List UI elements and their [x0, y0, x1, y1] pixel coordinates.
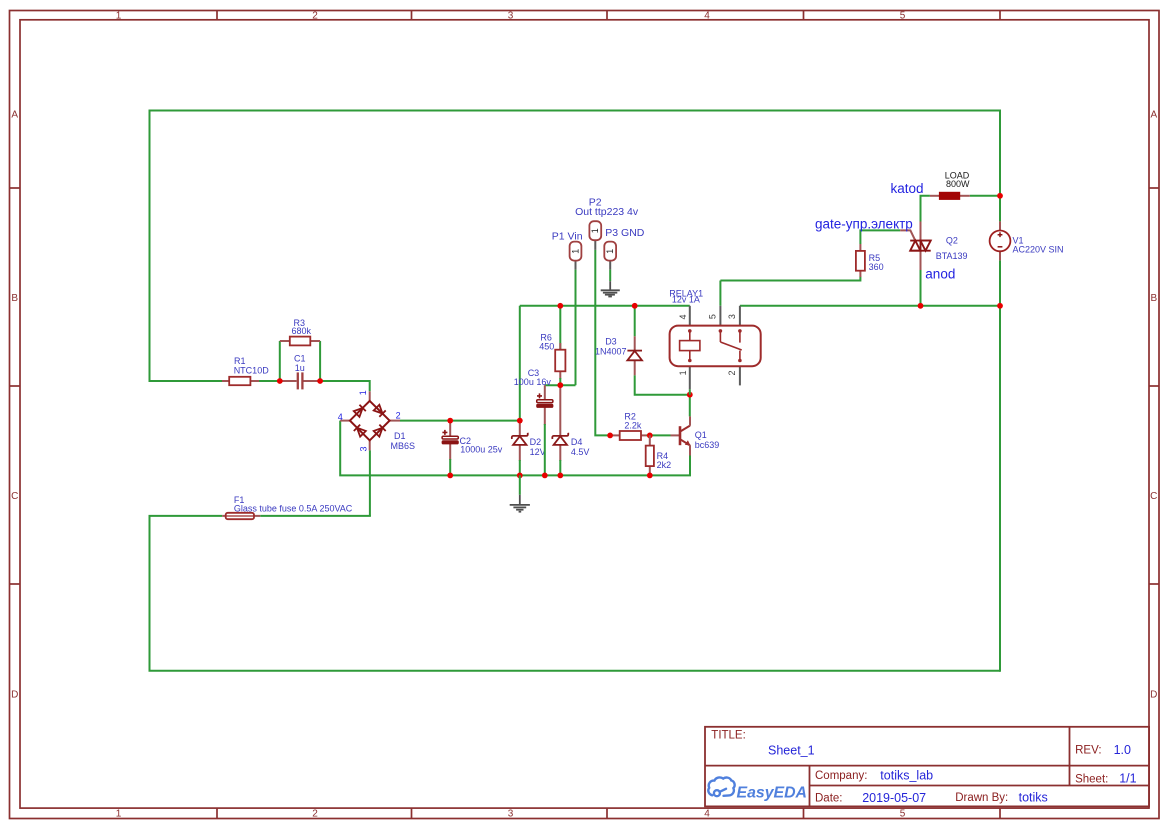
- wire main ground stem: [519, 475, 521, 494]
- relay RELAY1: [669, 288, 760, 394]
- svg-text:1: 1: [678, 370, 688, 375]
- wire Q1 collector: [689, 395, 691, 417]
- svg-text:AC220V SIN: AC220V SIN: [1013, 245, 1064, 255]
- wire anod: [920, 270, 922, 306]
- svg-text:Out ttp223 4v: Out ttp223 4v: [575, 206, 639, 218]
- wire right vertical bottom: [999, 306, 1001, 672]
- svg-text:3: 3: [359, 446, 369, 451]
- wire right vertical top: [999, 110, 1001, 196]
- source V1: [990, 221, 1064, 260]
- node D2 top: [517, 418, 523, 424]
- wire P2 drop to R2: [595, 250, 613, 436]
- svg-text:1: 1: [570, 249, 580, 254]
- wire C3 P1 node row: [545, 384, 576, 386]
- connector P2: [575, 197, 639, 250]
- svg-text:3: 3: [508, 808, 514, 819]
- svg-text:100u 16v: 100u 16v: [514, 377, 552, 387]
- wire bridge pin4 to DC minus rail: [340, 421, 450, 476]
- resistor LOAD: [930, 171, 970, 200]
- node relay pin1 D3 Q1: [687, 392, 693, 398]
- svg-text:4: 4: [704, 808, 710, 819]
- svg-text:3: 3: [508, 10, 514, 21]
- svg-text:bc639: bc639: [695, 440, 720, 450]
- wire LOAD right: [970, 195, 1000, 197]
- wire R2 to Q1 base node: [647, 434, 671, 436]
- wire fuse row left: [149, 515, 223, 517]
- wire left upper vertical: [149, 110, 151, 382]
- svg-text:TITLE:: TITLE:: [711, 730, 746, 742]
- resistor R5: [856, 244, 884, 277]
- svg-text:Drawn By:: Drawn By:: [955, 792, 1008, 804]
- node R6 top: [557, 303, 563, 309]
- node C3 bottom: [542, 473, 548, 479]
- svg-text:Q2: Q2: [946, 235, 958, 245]
- svg-text:2: 2: [312, 10, 318, 21]
- svg-text:REV:: REV:: [1075, 744, 1101, 756]
- svg-text:totiks: totiks: [1019, 791, 1048, 805]
- connector P1: [552, 231, 583, 270]
- wire R3 branch left: [279, 341, 281, 381]
- wire V1 upper: [999, 196, 1001, 222]
- svg-text:800W: 800W: [946, 179, 970, 189]
- zener D2: [512, 421, 546, 476]
- svg-text:2019-05-07: 2019-05-07: [862, 791, 926, 805]
- svg-text:4: 4: [678, 314, 688, 319]
- capacitor C1: [280, 353, 320, 389]
- svg-text:680k: 680k: [292, 326, 312, 336]
- svg-text:D: D: [11, 690, 18, 701]
- svg-text:MB6S: MB6S: [391, 441, 416, 451]
- svg-text:1/1: 1/1: [1119, 771, 1136, 785]
- resistor R3: [280, 318, 320, 345]
- svg-text:Glass tube fuse 0.5A 250VAC: Glass tube fuse 0.5A 250VAC: [234, 503, 353, 513]
- svg-text:D: D: [1150, 690, 1157, 701]
- svg-text:P1 Vin: P1 Vin: [552, 231, 583, 243]
- wire R1 to C1 node: [259, 380, 280, 382]
- wire bridge pin3 to fuse row: [369, 450, 371, 516]
- wire D3 top: [634, 306, 636, 337]
- transistor Q1: [671, 416, 720, 455]
- svg-text:1000u 25v: 1000u 25v: [460, 445, 503, 455]
- svg-text:4: 4: [338, 412, 343, 422]
- wire V1 lower: [999, 260, 1001, 305]
- svg-text:totiks_lab: totiks_lab: [880, 769, 933, 783]
- node LOAD right: [997, 193, 1003, 199]
- svg-text:D4: D4: [571, 437, 583, 447]
- node V1 bottom rail: [997, 303, 1003, 309]
- svg-text:2: 2: [727, 370, 737, 375]
- wire P1 drop: [575, 270, 577, 386]
- svg-text:450: 450: [539, 341, 554, 351]
- svg-text:1: 1: [590, 228, 600, 233]
- wire pin5 to R5: [720, 277, 860, 281]
- svg-text:360: 360: [869, 262, 884, 272]
- node R4 bottom: [647, 473, 653, 479]
- wire DC plus riser: [519, 306, 521, 421]
- svg-text:4: 4: [704, 10, 710, 21]
- node D4 bottom: [557, 473, 563, 479]
- svg-text:BTA139: BTA139: [936, 251, 968, 261]
- node R2 R4 Q1 base: [647, 433, 653, 439]
- title block: [705, 727, 1149, 807]
- svg-text:A: A: [11, 110, 18, 121]
- capacitor C3: [514, 368, 553, 475]
- wire P3 to ground: [609, 270, 611, 282]
- node R3 C1 left: [277, 378, 283, 384]
- fuse F1: [222, 495, 353, 519]
- svg-text:1N4007: 1N4007: [595, 347, 627, 357]
- wire bridge pin2 row: [400, 420, 520, 422]
- capacitor C2: [442, 421, 503, 476]
- triac Q2: [900, 222, 967, 271]
- svg-text:P3 GND: P3 GND: [605, 227, 645, 239]
- svg-text:A: A: [1150, 110, 1157, 121]
- svg-text:B: B: [1150, 293, 1157, 304]
- svg-text:3: 3: [727, 314, 737, 319]
- wire R3 branch right: [319, 341, 321, 381]
- svg-text:D2: D2: [530, 437, 542, 447]
- bridge rectifier D1: [338, 390, 415, 451]
- wire gate: [860, 230, 900, 244]
- svg-text:katod: katod: [891, 181, 924, 196]
- wire relay pin5 up: [719, 281, 721, 306]
- diode D3: [595, 336, 642, 375]
- wire katod: [921, 196, 930, 222]
- resistor R6: [539, 306, 565, 385]
- node D2 bottom: [517, 473, 523, 479]
- svg-text:2.2k: 2.2k: [624, 421, 642, 431]
- svg-text:Sheet:: Sheet:: [1075, 773, 1108, 785]
- svg-text:1: 1: [358, 390, 368, 395]
- node C2 top: [447, 418, 453, 424]
- wire top rail: [150, 110, 1001, 112]
- svg-text:Q1: Q1: [695, 430, 707, 440]
- wire left lower vertical: [149, 516, 151, 671]
- svg-text:1: 1: [605, 249, 615, 254]
- node anod rail: [918, 303, 924, 309]
- svg-text:1u: 1u: [295, 363, 305, 373]
- svg-text:Company:: Company:: [815, 770, 867, 782]
- ground main: [510, 495, 530, 512]
- node R6 bottom C3 P1: [557, 382, 563, 388]
- svg-text:5: 5: [900, 10, 906, 21]
- wire R1 row left: [149, 380, 223, 382]
- node R3 C1 right: [317, 378, 323, 384]
- svg-text:D1: D1: [394, 431, 406, 441]
- svg-text:Date:: Date:: [815, 793, 843, 805]
- svg-text:NTC10D: NTC10D: [234, 365, 270, 375]
- resistor R2: [613, 411, 647, 440]
- EasyEDA logo: [708, 777, 807, 801]
- wire fuse row right: [260, 515, 371, 517]
- wire bottom rail: [149, 670, 1001, 672]
- wire DC minus rail: [450, 456, 690, 476]
- svg-text:2k2: 2k2: [657, 460, 672, 470]
- svg-text:4.5V: 4.5V: [571, 447, 590, 457]
- svg-text:EasyEDA: EasyEDA: [737, 785, 808, 802]
- svg-text:12v 1A: 12v 1A: [672, 295, 700, 305]
- svg-text:gate-упр.электр: gate-упр.электр: [815, 217, 913, 232]
- zener D4: [552, 385, 589, 475]
- node C2 bottom: [447, 473, 453, 479]
- svg-text:D3: D3: [605, 337, 617, 347]
- connector P3: [604, 227, 645, 270]
- svg-text:5: 5: [707, 314, 717, 319]
- node D3 top: [632, 303, 638, 309]
- svg-text:2: 2: [396, 411, 401, 421]
- svg-text:C1: C1: [294, 353, 306, 363]
- node R2 left: [607, 433, 613, 439]
- wire 12V rail: [520, 305, 690, 307]
- wire D3 bottom to relay pin1 node: [635, 375, 690, 394]
- resistor R4: [646, 435, 671, 475]
- svg-text:1: 1: [116, 808, 122, 819]
- svg-text:Sheet_1: Sheet_1: [768, 744, 815, 758]
- svg-text:2: 2: [312, 808, 318, 819]
- svg-text:anod: anod: [925, 266, 955, 281]
- svg-text:1: 1: [116, 10, 122, 21]
- svg-text:C: C: [1150, 491, 1157, 502]
- resistor R1: [222, 356, 269, 385]
- wire relay pin3 to V1 row: [740, 305, 1000, 307]
- svg-text:1.0: 1.0: [1114, 743, 1131, 757]
- svg-text:B: B: [11, 293, 18, 304]
- wire C1 node to bridge pin1: [320, 381, 370, 391]
- ground under P3: [601, 281, 620, 296]
- svg-text:12V: 12V: [530, 447, 546, 457]
- svg-text:5: 5: [900, 808, 906, 819]
- svg-text:C: C: [11, 491, 18, 502]
